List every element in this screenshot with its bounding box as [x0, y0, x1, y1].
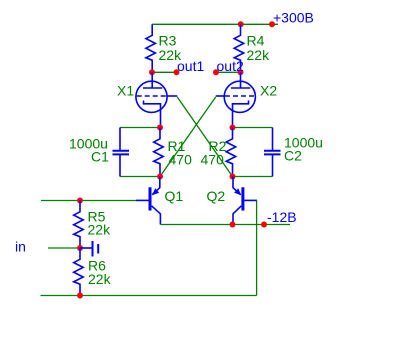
transistor Q1 — [136, 177, 160, 225]
junction dot +300B label pin — [269, 21, 275, 27]
wire Q2 base drop — [256, 201, 258, 296]
junction dot in node — [77, 245, 83, 251]
wire +300B top rail — [152, 23, 278, 25]
wire out1 link — [152, 71, 177, 73]
junction dot on +300B rail at R4 column — [238, 21, 244, 27]
wire bottom rail — [41, 295, 257, 297]
capacitor C2 — [264, 128, 281, 177]
svg-text:Q1: Q1 — [165, 188, 184, 204]
svg-text:Q2: Q2 — [207, 188, 226, 204]
svg-text:C2: C2 — [284, 148, 302, 164]
svg-text:C1: C1 — [91, 149, 109, 165]
svg-text:22k: 22k — [88, 222, 112, 238]
wire -12B rail — [160, 224, 290, 226]
svg-text:22k: 22k — [247, 47, 271, 63]
triode X2 — [216, 72, 256, 127]
svg-text:470: 470 — [201, 152, 225, 168]
capacitor C1 — [113, 128, 130, 177]
junction dot out1 label pin — [174, 69, 180, 75]
wire cross-coupling X1 grid to Q2 emitter node — [177, 97, 232, 177]
junction dot Q2 emitter node — [230, 174, 236, 180]
wire in — [48, 247, 80, 249]
resistor R4 — [234, 24, 244, 72]
wire C1 top link — [120, 127, 160, 129]
capacitor input coupling — [80, 241, 98, 257]
resistor R6 — [74, 248, 84, 296]
junction dot R6 bottom — [77, 293, 83, 299]
wire out2 link — [216, 71, 241, 73]
svg-text:X2: X2 — [260, 83, 277, 99]
wire Q1 base net — [41, 200, 136, 202]
resistor R5 — [74, 201, 84, 249]
wire C2 bottom link — [233, 176, 273, 178]
wire cross-coupling X2 grid to Q1 emitter node — [160, 97, 216, 177]
junction dot X2 anode node — [238, 69, 244, 75]
svg-text:+300B: +300B — [273, 10, 314, 26]
junction dot X1 anode node — [149, 69, 155, 75]
svg-text:out2: out2 — [217, 58, 244, 74]
wire C1 bottom link — [120, 176, 160, 178]
junction dot X1 cathode node — [157, 125, 163, 131]
svg-text:-12B: -12B — [267, 209, 297, 225]
junction dot -12B label pin — [261, 222, 267, 228]
svg-text:out1: out1 — [177, 58, 204, 74]
resistor R3 — [146, 24, 156, 72]
wire C2 top link — [233, 127, 273, 129]
resistor R2 — [226, 128, 236, 177]
junction dot X2 cathode node — [230, 125, 236, 131]
junction dot Q2 collector on -12B rail — [230, 222, 236, 228]
junction dot out2 label pin — [213, 69, 219, 75]
resistor R1 — [154, 128, 164, 177]
svg-text:X1: X1 — [117, 83, 134, 99]
svg-text:in: in — [15, 239, 26, 255]
junction dot R5 top — [77, 198, 83, 204]
junction dot Q1 emitter node — [157, 174, 163, 180]
svg-text:470: 470 — [169, 152, 193, 168]
triode X1 — [136, 72, 177, 127]
svg-text:22k: 22k — [88, 271, 112, 287]
transistor Q2 — [233, 177, 257, 225]
